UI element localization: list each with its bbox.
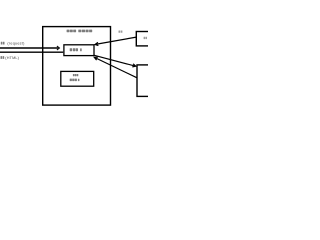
wire request arrow [0,47,58,49]
container box 서블릿 컨테이너 [43,27,111,106]
label 스레드 [73,74,78,76]
wire request from top-right 웹 브라우저 to 서블릿 A [95,37,136,44]
label 웹 브라우저 (partial) [144,37,147,39]
box 웹 브라우저 (bottom right, cut off) [137,65,157,97]
wire request from bottom-right box to 서블릿 A [95,58,137,78]
box 웹 브라우저 (top right, cut off) [136,32,156,46]
svg-text:(request): (request) [7,42,25,46]
label 서블릿 A [70,48,82,51]
arrowhead [132,64,136,67]
label 서블릿 B [70,79,80,82]
arrowhead [94,57,98,60]
wire response from 서블릿 A to bottom-right box [94,55,135,66]
arrowhead [95,42,98,45]
label 응답 (HTML) [1,56,20,60]
box 서블릿 A [64,45,94,56]
label 요청 (top right) [119,31,123,33]
box 스레드 / 서블릿 B [61,71,94,86]
svg-text:(HTML): (HTML) [5,56,19,60]
wire response line 응답 [0,51,63,53]
title text 서블릿 컨테이너 [67,30,93,33]
arrowhead request [57,46,60,50]
label 요청 (request) [1,42,25,46]
